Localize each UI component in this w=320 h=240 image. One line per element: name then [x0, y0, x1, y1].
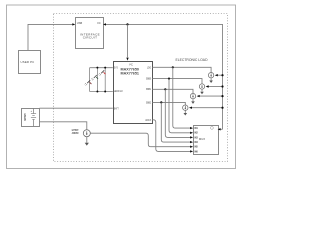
junction I2C bus / load 2 [221, 85, 223, 87]
current sink load 3 (SBB1) [190, 93, 195, 98]
svg-text:ELECTRONIC LOAD: ELECTRONIC LOAD [175, 58, 208, 62]
wire SBB0 sense to MUX IN2 [169, 79, 191, 133]
junction: I2C bus to chip drop [126, 23, 128, 25]
svg-text:USER PC: USER PC [21, 60, 35, 64]
junction SYS rail / branch 3 [104, 67, 106, 69]
wire I2C control arrow to load 1 [215, 74, 223, 76]
current sink load 1 (LDO) [208, 73, 213, 78]
arrowhead MUX IN1 [190, 127, 193, 129]
junction SBB0 net / MUX drop [168, 78, 170, 80]
svg-text:BATT: BATT [114, 106, 119, 110]
wire I2C control arrow to load 4 [189, 107, 223, 109]
interface circuit block [76, 18, 104, 49]
svg-text:MUX: MUX [199, 137, 205, 141]
junction I2C bus / load 3 [221, 95, 223, 97]
battery ammeter M1 [72, 128, 91, 137]
svg-text:I²C: I²C [129, 62, 133, 66]
svg-text:AMUX: AMUX [145, 118, 151, 122]
wire I2C control arrow to load 3 [197, 95, 223, 97]
svg-text:MAX77650: MAX77650 [121, 67, 139, 71]
junction LED rail / branch 3 [104, 91, 106, 93]
junction SYS rail / branch 2 [96, 67, 98, 69]
LED D2 (green, branch 2) [91, 75, 98, 80]
svg-text:CIRCUIT: CIRCUIT [83, 36, 98, 40]
junction LDO net / MUX drop [172, 66, 174, 68]
wire LED branch 2 vertical [96, 68, 98, 92]
svg-text:BATTERY: BATTERY [24, 113, 27, 120]
wire I2C bus: interface circuit to MUX, down right side [103, 23, 223, 129]
svg-text:MAX77651: MAX77651 [121, 71, 139, 75]
svg-text:SBB1: SBB1 [146, 87, 152, 91]
wire LED branch 1 vertical [89, 68, 91, 92]
ground (load 3) [191, 99, 195, 104]
ground (ammeter) [85, 137, 89, 146]
arrowhead MUX IN3 [190, 136, 193, 138]
LED D3 (red, branch 3) [99, 70, 106, 75]
wire USB: USER PC to interface circuit [28, 23, 75, 50]
junction I2C bus / load 1 [221, 74, 223, 76]
wire BATT net: battery + to U1 BATT pin [40, 107, 113, 109]
wire I2C arrow into MUX right side [218, 128, 223, 130]
wire ammeter sense to MUX IN5 [90, 133, 190, 147]
PMIC U1 MAX77650/MAX77651 [114, 62, 153, 124]
USER PC block [19, 51, 41, 74]
svg-text:USB: USB [77, 21, 83, 25]
wire SBB2 net to load 4 [152, 102, 185, 105]
wire LDO net to load 1 [152, 67, 211, 72]
arrowhead MUX IN2 [190, 132, 193, 134]
wire LED branch 3 vertical [104, 68, 106, 92]
wire SBB1 net to load 3 [152, 89, 193, 93]
ground (load 4) [184, 110, 188, 115]
ground (load 2) [200, 89, 204, 94]
svg-text:BATTERY: BATTERY [72, 128, 79, 132]
LED D1 (red, branch 1) [85, 80, 92, 85]
junction SBB2 net / MUX drop [160, 101, 162, 103]
svg-text:SYS: SYS [114, 65, 118, 69]
junction LED rail / branch 2 [96, 91, 98, 93]
svg-text:LDO: LDO [147, 65, 152, 69]
junction I2C bus / load 4 [221, 107, 223, 109]
svg-text:SBB0: SBB0 [146, 77, 152, 81]
junction SBB1 net / MUX drop [164, 88, 166, 90]
wire SBB0 net to load 2 [152, 79, 202, 84]
svg-text:LED0/1/2: LED0/1/2 [114, 89, 123, 93]
wire SBB1 sense to MUX IN3 [165, 89, 190, 137]
wire battery - terminal to ammeter [40, 122, 87, 130]
wire I2C control arrow to load 2 [206, 85, 223, 87]
arrowhead MUX IN5 [190, 146, 193, 148]
wire LED0/1/2 return rail [90, 91, 113, 93]
battery BT1 [22, 108, 40, 126]
svg-text:I²C: I²C [97, 21, 101, 25]
current sink load 4 (SBB2) [183, 105, 188, 110]
MUX U3 [194, 126, 219, 155]
wire AMUX to MUX IN6 [152, 120, 190, 152]
svg-text:SBB2: SBB2 [146, 100, 152, 104]
arrowhead MUX IN6 [190, 150, 193, 152]
svg-text:AMMETER: AMMETER [72, 131, 79, 135]
ground (load 1) [209, 78, 213, 83]
wire SYS rail to LED network [90, 67, 113, 69]
wire SBB2 sense to MUX IN4 [161, 102, 190, 142]
wire I2C drop into chip U1 [126, 24, 128, 60]
current sink load 2 (SBB0) [199, 84, 204, 89]
wire LDO sense to MUX IN1 [173, 67, 191, 128]
EV kit dashed boundary [54, 14, 228, 162]
arrowhead MUX IN4 [190, 141, 193, 143]
